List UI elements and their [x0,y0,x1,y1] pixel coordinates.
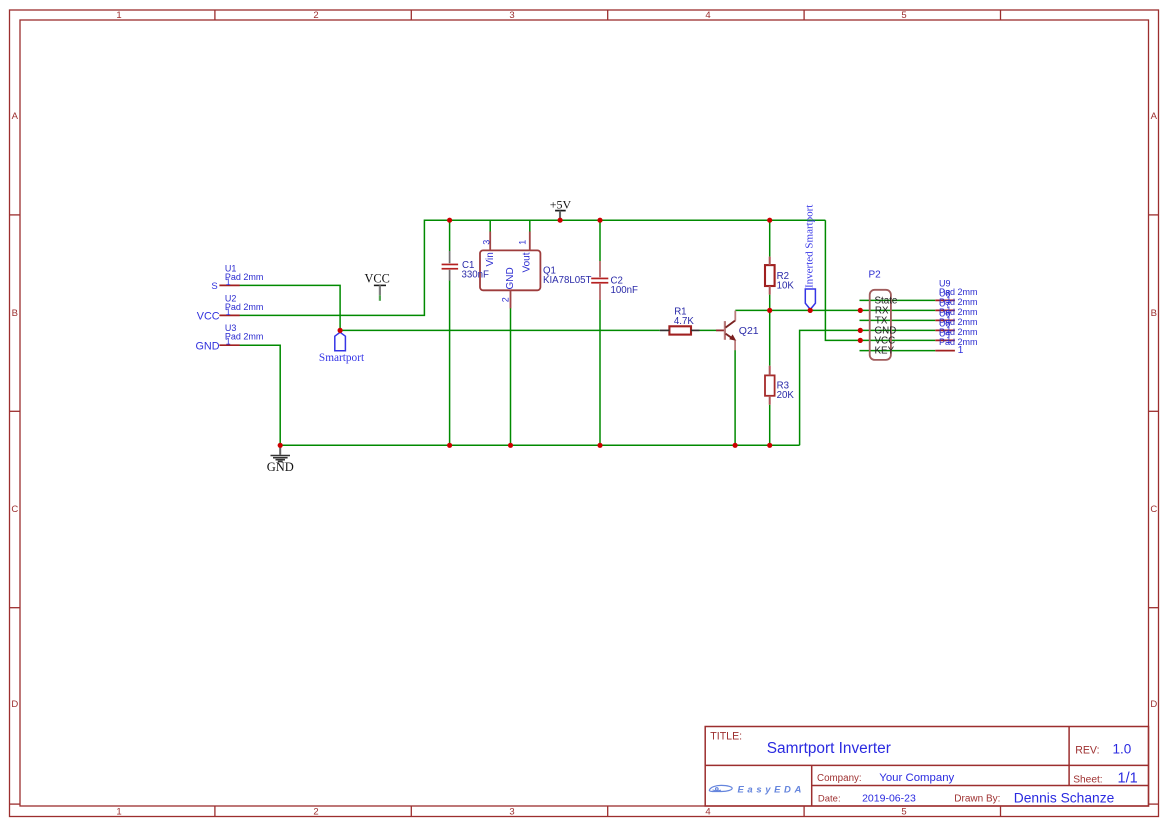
svg-text:1: 1 [226,307,231,317]
svg-text:2: 2 [501,297,511,302]
svg-text:1: 1 [958,345,964,356]
svg-text:330nF: 330nF [462,270,490,281]
svg-text:+5V: +5V [550,198,572,212]
svg-text:10K: 10K [777,280,795,291]
svg-text:GND: GND [505,267,516,289]
svg-text:A: A [1151,111,1158,122]
svg-text:KEY: KEY [875,346,895,357]
svg-text:Smartport: Smartport [319,352,365,364]
svg-text:TITLE:: TITLE: [710,731,742,743]
svg-text:GND: GND [267,460,294,474]
svg-text:4.7K: 4.7K [674,316,694,327]
svg-text:Inverted Smartport: Inverted Smartport [804,205,816,288]
svg-text:5: 5 [901,10,906,21]
svg-text:3: 3 [509,807,514,818]
svg-text:1: 1 [946,335,951,345]
svg-text:B: B [1151,308,1157,319]
svg-text:100nF: 100nF [611,285,639,296]
svg-text:Pad 2mm: Pad 2mm [225,302,264,312]
svg-text:Company:: Company: [817,773,862,784]
svg-text:20K: 20K [777,390,795,401]
svg-text:1.0: 1.0 [1113,741,1132,756]
svg-text:1/1: 1/1 [1118,771,1138,787]
svg-text:A: A [12,111,19,122]
svg-text:D: D [11,699,18,710]
svg-text:D: D [1150,699,1157,710]
svg-text:2019-06-23: 2019-06-23 [862,793,916,805]
svg-text:C: C [11,504,18,515]
svg-text:1: 1 [946,325,951,335]
svg-text:VCC: VCC [197,310,220,322]
svg-text:EasyEDA: EasyEDA [738,784,805,795]
svg-text:B: B [12,308,18,319]
svg-text:C: C [1150,504,1157,515]
svg-text:GND: GND [196,340,220,352]
svg-text:KIA78L05T: KIA78L05T [543,275,592,286]
svg-text:2: 2 [313,807,318,818]
svg-text:S: S [211,281,217,292]
svg-text:4: 4 [705,10,710,21]
svg-text:1: 1 [116,10,121,21]
svg-text:4: 4 [705,807,710,818]
svg-text:3: 3 [509,10,514,21]
svg-text:1: 1 [226,337,231,347]
svg-text:Samrtport Inverter: Samrtport Inverter [767,740,891,757]
svg-text:1: 1 [946,295,951,305]
svg-text:1: 1 [116,807,121,818]
svg-text:VCC: VCC [365,271,390,285]
svg-text:1: 1 [518,240,528,245]
svg-text:Sheet:: Sheet: [1073,774,1102,785]
svg-text:3: 3 [481,240,491,245]
svg-text:REV:: REV: [1075,745,1099,757]
svg-text:Vin: Vin [485,252,496,266]
svg-text:Vout: Vout [521,252,532,272]
svg-text:P2: P2 [869,270,882,281]
svg-text:Pad 2mm: Pad 2mm [225,272,264,282]
svg-text:1: 1 [226,277,231,287]
svg-text:Your Company: Your Company [879,772,954,784]
svg-text:Pad 2mm: Pad 2mm [225,332,264,342]
svg-text:5: 5 [901,807,906,818]
svg-text:1: 1 [946,315,951,325]
svg-text:Drawn By:: Drawn By: [954,794,1000,805]
svg-text:Q21: Q21 [739,325,759,337]
svg-text:1: 1 [946,305,951,315]
svg-text:2: 2 [313,10,318,21]
svg-text:Date:: Date: [818,794,841,805]
svg-text:Dennis Schanze: Dennis Schanze [1014,791,1115,806]
